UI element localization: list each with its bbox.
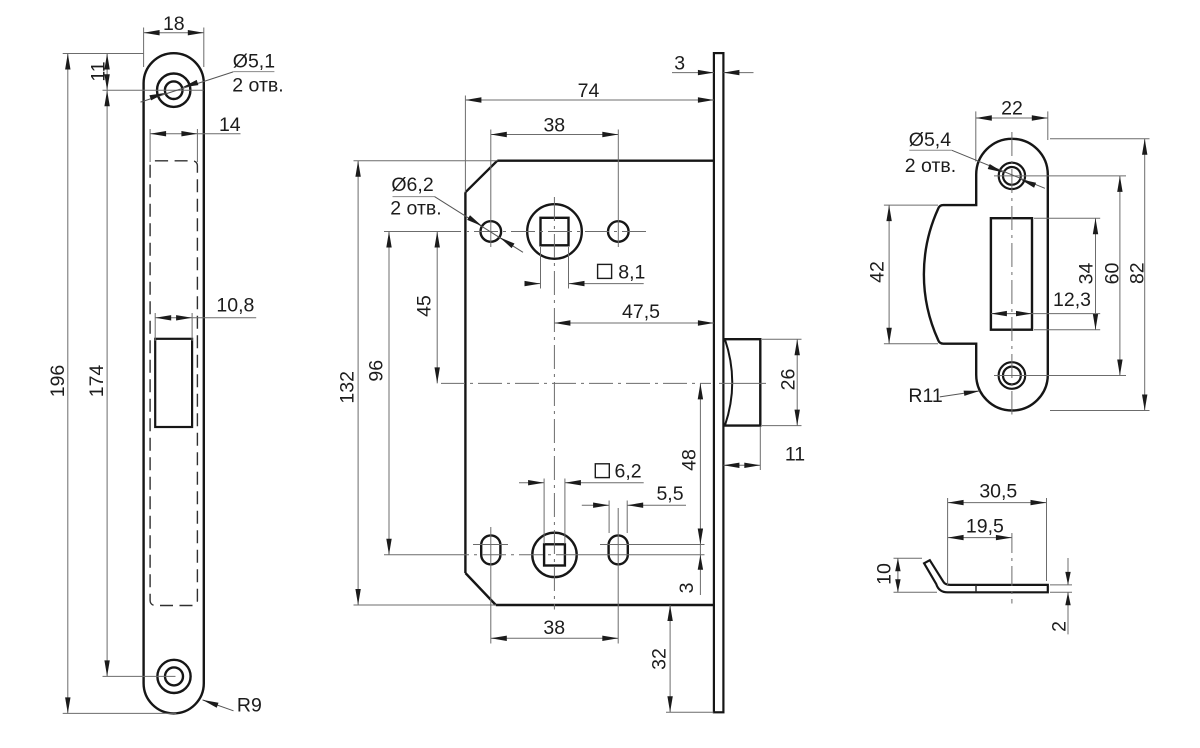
svg-text:34: 34	[1076, 263, 1098, 285]
spindle square 8,1	[541, 218, 569, 246]
dimension 132	[357, 161, 359, 605]
strike rectangular cutout	[991, 218, 1032, 330]
faceplate bottom screw hole	[157, 660, 190, 693]
latch axis center line	[441, 382, 711, 384]
strike plate outline with tongue	[924, 139, 1048, 411]
svg-text:22: 22	[1001, 98, 1023, 120]
svg-text:11: 11	[88, 61, 110, 81]
slot upper arc-center tick left	[473, 544, 508, 546]
dimension 10,8	[154, 313, 156, 341]
svg-text:10,8: 10,8	[216, 294, 254, 316]
dimension 34	[1034, 217, 1100, 219]
dimension 5,5	[582, 504, 609, 506]
dimension 45	[436, 232, 438, 384]
svg-text:R11: R11	[908, 385, 942, 407]
svg-text:11: 11	[785, 444, 805, 466]
dimension 74	[465, 99, 714, 101]
extension lines 8,1	[540, 247, 542, 289]
svg-text:132: 132	[337, 371, 359, 404]
svg-text:30,5: 30,5	[979, 481, 1017, 503]
svg-text:5,5: 5,5	[656, 483, 683, 505]
svg-text:48: 48	[679, 449, 701, 471]
dimension 26 latch height	[762, 338, 802, 340]
svg-text:Ø5,4: Ø5,4	[909, 129, 951, 151]
extension lines 5,5	[608, 501, 610, 534]
strike top hole 5,4	[999, 163, 1025, 189]
svg-text:174: 174	[86, 365, 108, 398]
dimension 10	[894, 557, 923, 559]
dimension 96	[388, 232, 390, 555]
strike vertical center line	[1011, 132, 1013, 415]
strike profile bent plate	[924, 560, 1048, 592]
dimension 60	[1119, 176, 1121, 376]
dimension 11	[63, 53, 144, 55]
strike bottom hole center line	[994, 375, 1126, 377]
svg-text:18: 18	[163, 13, 185, 35]
svg-text:32: 32	[649, 648, 671, 670]
svg-text:6,2: 6,2	[615, 461, 642, 483]
upper left hole 6,2	[481, 221, 502, 242]
lower right oval slot	[609, 535, 628, 564]
svg-text:3: 3	[674, 53, 685, 75]
svg-text:12,3: 12,3	[1053, 289, 1091, 311]
svg-text:Ø6,2: Ø6,2	[391, 174, 433, 196]
center line top hole	[103, 89, 204, 91]
lower left oval slot	[481, 535, 500, 564]
upper holes row line	[384, 231, 437, 233]
dimension 11 latch protrusion	[759, 427, 761, 470]
svg-text:45: 45	[414, 295, 436, 317]
leader diameter 6,2 2 holes	[435, 197, 524, 253]
dimension 38 top	[491, 134, 619, 136]
svg-text:196: 196	[47, 365, 69, 398]
dimension 14	[149, 129, 151, 162]
strike bottom hole 5,4	[999, 362, 1026, 389]
svg-text:38: 38	[543, 115, 565, 137]
svg-text:60: 60	[1102, 263, 1124, 285]
dimension 38 bottom	[491, 637, 619, 639]
upper right hole 6,2	[608, 221, 629, 242]
lower holes row line	[384, 554, 445, 556]
lower square 6,2	[544, 544, 565, 565]
faceplate edge strip (side view, 3mm)	[714, 53, 724, 712]
slot upper arc-center line right	[600, 544, 705, 546]
lock body outline with chamfers	[465, 161, 714, 605]
dimension 30,5	[947, 498, 949, 585]
spindle circle	[527, 204, 582, 259]
lower follower circle	[532, 533, 576, 577]
svg-text:2: 2	[1049, 621, 1071, 632]
latch bolt protruding	[723, 339, 760, 425]
dimension 3 faceplate thickness	[672, 72, 714, 74]
dimension 48 and 3 vertical	[699, 383, 701, 595]
dimension 42	[884, 204, 938, 206]
dimension 19,5	[948, 537, 1012, 539]
leader diameter 5,4 2 holes	[952, 150, 1045, 188]
faceplate latch opening rect	[155, 339, 192, 427]
svg-text:3: 3	[676, 583, 698, 594]
leader R9	[203, 700, 234, 711]
svg-text:10: 10	[874, 563, 896, 585]
vertical spindle axis center line	[553, 197, 555, 610]
dimension 174	[106, 90, 108, 676]
extension line body left top	[464, 96, 466, 193]
leader diameter 5,1 2 holes	[141, 72, 234, 102]
svg-text:R9: R9	[237, 694, 262, 716]
svg-text:26: 26	[778, 369, 800, 391]
svg-text:82: 82	[1126, 262, 1148, 284]
svg-text:Ø5,1: Ø5,1	[233, 50, 275, 72]
dimension 196	[63, 712, 177, 714]
dimension square 6,2 lower	[519, 482, 544, 484]
side view center line	[1011, 533, 1013, 604]
leader R11	[940, 391, 980, 397]
faceplate outline (stadium 18x196 R9)	[144, 53, 204, 713]
extension lines 6,2 lower	[543, 479, 545, 545]
strike profile seam	[975, 586, 977, 592]
svg-text:96: 96	[366, 360, 388, 382]
dimension 47,5	[554, 322, 714, 324]
svg-text:8,1: 8,1	[618, 262, 645, 284]
svg-text:2 отв.: 2 отв.	[905, 155, 956, 177]
faceplate top screw hole	[157, 74, 190, 107]
dimension square 8,1	[526, 283, 541, 285]
svg-text:42: 42	[867, 261, 889, 283]
dimension 12,3	[991, 313, 1100, 315]
svg-text:2 отв.: 2 отв.	[232, 74, 283, 96]
extension lines upper holes	[490, 130, 492, 248]
dimension 32	[666, 711, 714, 713]
extension lines lower holes	[490, 527, 492, 644]
svg-text:14: 14	[219, 114, 241, 136]
center line bottom hole	[103, 675, 176, 677]
dimension 18	[143, 28, 145, 68]
svg-text:74: 74	[578, 80, 600, 102]
dimension 82	[1050, 138, 1150, 140]
strike top hole center line	[994, 175, 1126, 177]
svg-text:19,5: 19,5	[966, 516, 1004, 538]
svg-text:38: 38	[543, 617, 565, 639]
dimension 22	[975, 111, 977, 161]
extension lines 132	[354, 160, 498, 162]
faceplate hidden lock-body dashed rect	[150, 161, 197, 606]
svg-text:47,5: 47,5	[622, 301, 660, 323]
dimension 2	[1050, 584, 1072, 586]
svg-text:2 отв.: 2 отв.	[390, 197, 441, 219]
